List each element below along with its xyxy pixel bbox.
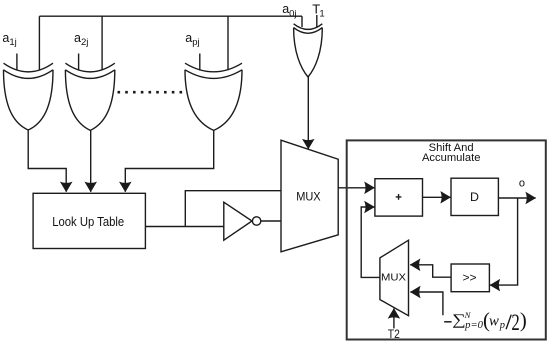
adder box (375, 179, 423, 216)
svg-text:Accumulate: Accumulate (422, 152, 480, 164)
wire feedback branch to shifter (490, 198, 518, 285)
svg-text:a1j: a1j (2, 31, 16, 48)
wire X3 output to LUT (125, 130, 213, 191)
LUT box (33, 193, 145, 248)
mux MUX1 (281, 140, 338, 252)
label sum constant (444, 310, 527, 336)
node a2j input stub (78, 54, 80, 71)
node T1 input stub (316, 15, 318, 28)
ellipsis dots (118, 91, 183, 94)
wire a0j top rail (39, 15, 302, 17)
svg-text:): ) (520, 310, 527, 332)
svg-text:a2j: a2j (74, 31, 88, 48)
wire X4 output to MUX select (307, 77, 309, 149)
wire sum constant to MUX2 (410, 292, 443, 315)
wire X1 output to LUT (28, 130, 66, 192)
xor gate X3 (185, 63, 242, 130)
wire LUT output to inverter (145, 226, 223, 228)
xor gate X2 (65, 63, 114, 130)
node apj input stub (199, 54, 201, 71)
svg-text:p=0: p=0 (464, 319, 484, 331)
svg-text:∑: ∑ (452, 311, 466, 328)
Shift And Accumulate box (347, 140, 546, 339)
wire MUX2 output to adder input (361, 207, 380, 277)
svg-text:T1: T1 (312, 2, 324, 20)
wire X2 output to LUT (90, 130, 92, 191)
svg-text:>>: >> (462, 271, 476, 285)
svg-text:D: D (470, 190, 479, 204)
wire rail drop to X3 (227, 16, 229, 70)
wire T2 select into MUX2 (393, 309, 395, 329)
wire D output o (498, 197, 535, 199)
svg-text:p: p (499, 320, 505, 331)
svg-text:MUX: MUX (381, 273, 406, 284)
svg-text:Look Up Table: Look Up Table (52, 214, 124, 229)
register D box (451, 178, 498, 215)
wire shifter output to MUX2 (410, 265, 451, 277)
svg-text:o: o (519, 178, 525, 190)
inverter U1 (224, 202, 261, 240)
wire inverter output to MUX input B (261, 220, 281, 222)
node a1j input stub (16, 54, 18, 71)
wire rail drop to X4 (301, 16, 303, 27)
wire rail drop to X2 (101, 16, 103, 70)
wire rail drop to X1 (38, 16, 40, 70)
svg-text:w: w (489, 314, 499, 330)
xor gate X4 (294, 24, 323, 77)
svg-text:2: 2 (511, 311, 519, 336)
xor gate X1 (4, 63, 54, 130)
shifter box (451, 264, 489, 292)
mux MUX2 (380, 240, 409, 316)
svg-text:apj: apj (185, 31, 199, 48)
wire MUX1 output to adder (338, 187, 374, 189)
wire branch to MUX input A (185, 191, 281, 227)
svg-text:MUX: MUX (296, 190, 320, 204)
label adder plus (396, 194, 402, 200)
svg-text:T2: T2 (388, 329, 400, 341)
wire adder output to D (423, 196, 451, 198)
